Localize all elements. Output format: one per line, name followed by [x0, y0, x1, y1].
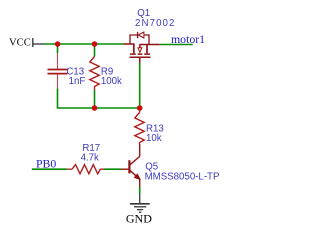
svg-text:2N7002: 2N7002 — [135, 18, 176, 29]
svg-text:GND: GND — [126, 212, 152, 226]
svg-text:MMSS8050-L-TP: MMSS8050-L-TP — [145, 172, 220, 183]
svg-text:10k: 10k — [146, 133, 162, 144]
svg-text:VCC: VCC — [9, 38, 31, 49]
svg-text:4.7k: 4.7k — [81, 153, 99, 164]
svg-text:PB0: PB0 — [36, 157, 56, 171]
svg-text:100k: 100k — [101, 76, 122, 87]
svg-text:motor1: motor1 — [171, 32, 205, 46]
svg-text:1nF: 1nF — [69, 76, 86, 87]
